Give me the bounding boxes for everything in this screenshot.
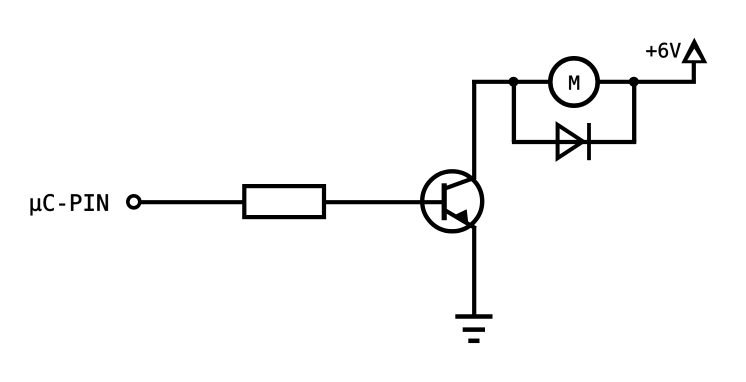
wire: collector of Q1 up to top rail (472, 80, 476, 179)
resistor R1 (base resistor) (244, 186, 324, 217)
transistor Q1 (NPN driver) (422, 171, 482, 231)
wire: diode row horizontal (512, 140, 636, 144)
wire: left branch down to diode row (512, 82, 516, 142)
power +6V arrow symbol (681, 38, 707, 64)
node label μC-PIN (31, 194, 108, 215)
junction: motor left node (509, 77, 519, 87)
diode D1 (flyback) (558, 123, 589, 160)
wire: terminal to resistor R1 (138, 200, 246, 204)
wire: right branch down to diode row (632, 82, 636, 142)
ground symbol (455, 317, 492, 341)
terminal: input pin open circle (128, 196, 140, 208)
wire: emitter of Q1 down to ground (472, 227, 476, 318)
wire: resistor R1 to base of Q1 (324, 200, 444, 204)
wire: top rail to +6V stem (472, 62, 694, 82)
motor M1 (550, 58, 597, 105)
power label +6V (646, 43, 680, 58)
junction: motor right node (629, 77, 639, 87)
